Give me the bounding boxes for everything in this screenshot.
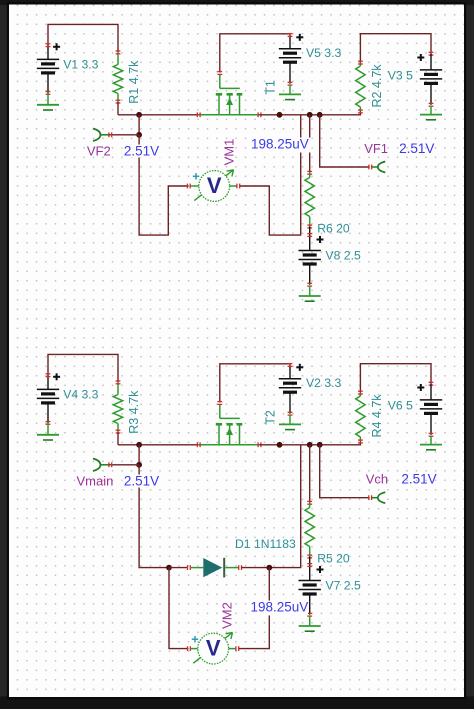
node junction diode anode	[166, 565, 172, 571]
node junction bus-mid-left	[277, 112, 283, 118]
svg-text:V2 3.3: V2 3.3	[306, 376, 341, 390]
plus sign V8	[317, 236, 324, 243]
wire to D1 anode	[169, 565, 190, 570]
label R3 4.7k	[127, 390, 141, 434]
svg-text:V1 3.3: V1 3.3	[63, 57, 98, 71]
voltmeter VM1	[187, 170, 239, 202]
battery V2	[279, 364, 301, 416]
label R1 4.7k	[127, 60, 141, 104]
plus sign V5	[296, 34, 303, 41]
node junction bus-mid-right	[307, 112, 313, 118]
ground under V6	[420, 436, 442, 450]
resistor R5	[305, 501, 314, 558]
ground under V8	[299, 285, 321, 301]
value 2.51V at VF1	[399, 141, 434, 156]
ground under V7	[299, 615, 321, 631]
battery V7	[299, 557, 321, 617]
svg-text:R4 4.7k: R4 4.7k	[370, 394, 384, 438]
battery V3	[420, 52, 442, 106]
voltmeter VM2	[188, 632, 239, 664]
svg-text:V8 2.5: V8 2.5	[326, 249, 361, 263]
label R4 4.7k	[370, 394, 384, 438]
svg-text:V5 3.3: V5 3.3	[306, 46, 341, 60]
transistor T2	[197, 402, 261, 448]
battery V4	[37, 374, 59, 425]
resistor R2	[356, 61, 365, 113]
pin Vch jack	[372, 492, 386, 503]
svg-text:198.25uV: 198.25uV	[251, 600, 309, 615]
value 2.51V at Vch	[401, 471, 436, 486]
wire node to VF1 pin	[320, 115, 372, 170]
node junction bus-left	[136, 442, 142, 448]
label V7 2.5	[326, 579, 361, 593]
wire V4 top to R3	[48, 354, 118, 382]
svg-text:Vch: Vch	[366, 471, 388, 486]
svg-text:VM1: VM1	[221, 139, 236, 166]
value 2.51V at Vmain	[123, 474, 162, 489]
wire gate of T2 and top of V2	[220, 364, 290, 403]
ground under V1	[37, 93, 59, 110]
svg-text:V: V	[207, 173, 222, 198]
label V8 2.5	[326, 249, 361, 263]
plus sign VM2	[192, 636, 198, 642]
wire bus to R6	[309, 115, 311, 173]
value 2.51V at VF2	[123, 144, 162, 159]
plus sign V1	[53, 43, 60, 50]
label VM1	[221, 139, 236, 166]
svg-text:R6 20: R6 20	[317, 222, 350, 236]
label V5 3.3	[306, 46, 341, 60]
plus sign V6	[417, 384, 424, 391]
label Vmain	[77, 474, 114, 489]
resistor R1	[113, 51, 122, 115]
wire VM2 left loop	[169, 568, 189, 649]
value 198.25uV top	[250, 137, 312, 153]
label Vch	[366, 471, 388, 486]
diode D1	[191, 558, 242, 578]
label T2	[263, 410, 277, 425]
wire VM2 right loop to cathode node	[239, 568, 269, 649]
svg-text:2.51V: 2.51V	[124, 474, 159, 489]
resistor R4	[356, 391, 365, 443]
node junction bus-mid-right	[307, 442, 313, 448]
wire VM1 right loop to bus	[240, 115, 301, 235]
label V6 5	[388, 398, 413, 412]
svg-text:VF1: VF1	[364, 141, 388, 156]
svg-text:VM2: VM2	[219, 602, 234, 629]
battery V6	[420, 382, 442, 436]
node junction Vmain	[136, 462, 142, 468]
svg-text:V3 5: V3 5	[388, 68, 413, 82]
node junction bus-mid-left	[277, 442, 283, 448]
battery V8	[299, 227, 321, 287]
transistor T1	[197, 72, 261, 118]
battery V1	[37, 44, 59, 95]
svg-text:2.51V: 2.51V	[124, 144, 159, 159]
wire gate of T1 and top of V5	[220, 34, 290, 73]
wire bus to R5	[309, 445, 311, 503]
label R6 20	[317, 222, 350, 236]
pin VF1 jack	[372, 162, 386, 173]
ground under V2	[279, 414, 301, 429]
node junction bus-right	[317, 112, 323, 118]
label V2 3.3	[306, 376, 341, 390]
wire Vmain stub	[109, 462, 139, 467]
label V4 3.3	[63, 387, 98, 401]
plus sign V2	[296, 364, 303, 371]
label V1 3.3	[63, 57, 98, 71]
label R5 20	[317, 552, 350, 566]
wire node to Vmain pin	[138, 445, 140, 465]
battery V5	[279, 34, 301, 86]
wire D1 cathode to bus	[241, 445, 301, 568]
wire bus left	[118, 444, 199, 446]
svg-text:2.51V: 2.51V	[399, 141, 434, 156]
svg-text:2.51V: 2.51V	[401, 471, 436, 486]
plus sign V4	[53, 373, 60, 380]
svg-text:R2 4.7k: R2 4.7k	[370, 64, 384, 108]
value 198.25uV bottom	[249, 600, 309, 616]
svg-text:V4 3.3: V4 3.3	[63, 387, 98, 401]
svg-text:198.25uV: 198.25uV	[251, 137, 309, 152]
plus sign VM1	[193, 173, 199, 179]
node junction bus-left	[136, 112, 142, 118]
plus sign V3	[417, 54, 424, 61]
svg-text:Vmain: Vmain	[77, 474, 114, 489]
svg-text:VF2: VF2	[87, 144, 111, 159]
pin VF2 jack	[93, 129, 109, 142]
label V3 5	[388, 68, 413, 82]
svg-text:R1 4.7k: R1 4.7k	[127, 60, 141, 104]
wire node to VF2 pin	[138, 115, 140, 135]
label VF2	[87, 144, 111, 159]
node junction diode cathode	[266, 565, 272, 571]
wire top of R2 to V3	[360, 34, 431, 63]
resistor R3	[113, 381, 122, 445]
svg-text:D1 1N1183: D1 1N1183	[235, 537, 296, 551]
svg-text:V: V	[206, 635, 221, 660]
wire bus right	[260, 442, 361, 445]
ground under V4	[37, 423, 59, 440]
wire node to Vch pin	[320, 445, 372, 500]
node junction bus-right	[317, 442, 323, 448]
svg-text:T2: T2	[263, 410, 277, 425]
wire bus right	[260, 112, 361, 115]
wire top of R4 to V6	[360, 364, 431, 393]
wire Vmain down to diode row	[139, 465, 169, 568]
node junction VF2	[136, 132, 142, 138]
wire V1 top to R1	[48, 24, 118, 52]
ground under V5	[279, 84, 301, 99]
svg-text:V7 2.5: V7 2.5	[326, 579, 361, 593]
svg-text:V6 5: V6 5	[388, 398, 413, 412]
label T1	[263, 80, 277, 95]
label VF1	[364, 141, 388, 156]
wire VF2 stub	[109, 132, 139, 137]
resistor R6	[305, 171, 314, 228]
pin Vmain jack	[93, 459, 109, 472]
svg-text:T1: T1	[263, 80, 277, 95]
ground under V3	[420, 106, 442, 120]
label VM2	[219, 602, 234, 629]
label R2 4.7k	[370, 64, 384, 108]
svg-text:R3 4.7k: R3 4.7k	[127, 390, 141, 434]
wire bus left	[118, 114, 199, 116]
plus sign V7	[317, 566, 324, 573]
svg-text:R5 20: R5 20	[317, 552, 350, 566]
wire VM1 left loop	[139, 135, 188, 235]
label D1 1N1183	[235, 537, 296, 551]
